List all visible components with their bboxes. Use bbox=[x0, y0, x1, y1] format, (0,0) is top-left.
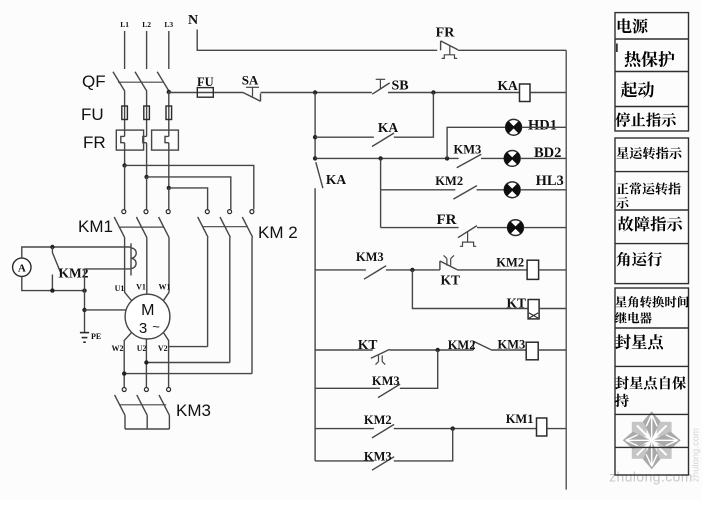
svg-text:U2: U2 bbox=[137, 344, 147, 353]
node ammeter top junction bbox=[50, 245, 54, 249]
fuse FU pole2 bbox=[144, 106, 150, 120]
wire FR out3 bbox=[168, 143, 170, 188]
contactor KM1 pole3 bbox=[159, 210, 171, 238]
KM3 linkage bar bbox=[119, 404, 166, 406]
wire BD2 to rail bbox=[520, 157, 566, 159]
wire HL3 to rail bbox=[520, 189, 566, 191]
node KT branch bbox=[410, 268, 414, 272]
node rung3 tap bbox=[313, 156, 317, 160]
wire KM1 rung left bbox=[315, 428, 374, 430]
wire PE to motor frame bbox=[85, 309, 127, 311]
contactor KM1 pole1 bbox=[114, 210, 126, 238]
wire W2 to KM2 pole3 bbox=[124, 373, 252, 375]
svg-text:L2: L2 bbox=[142, 20, 151, 29]
wire CT bottom return bbox=[85, 268, 132, 270]
wire rung2 left bbox=[315, 136, 374, 138]
contact KT delayed NO bbox=[371, 349, 390, 364]
wire U2 to KM2 pole2 bbox=[146, 362, 229, 364]
svg-text:V1: V1 bbox=[136, 283, 146, 292]
contact KM3 aux (BD2) bbox=[457, 154, 482, 168]
contact KA self-hold bbox=[372, 133, 394, 147]
ammeter A bbox=[13, 258, 31, 276]
svg-text:M: M bbox=[141, 302, 154, 319]
wire bottom rung to node bbox=[394, 429, 453, 461]
svg-text:KM3: KM3 bbox=[454, 142, 482, 156]
wire phase1 to KM2 pole3 bbox=[125, 165, 254, 209]
wire rung1 right bbox=[388, 92, 520, 94]
svg-text:KM3: KM3 bbox=[356, 250, 384, 264]
svg-text:U1: U1 bbox=[115, 284, 125, 293]
fuse FU pole3 bbox=[166, 106, 172, 120]
wire L3 feed bbox=[168, 31, 170, 69]
wire phase2 to KM2 pole2 bbox=[147, 177, 231, 210]
contact KM2 interlock NC bbox=[473, 341, 490, 350]
node rung3 branchA bbox=[378, 156, 382, 160]
wire KM3 out1 bbox=[124, 415, 126, 429]
wire rung3 left bbox=[315, 157, 459, 159]
wire to KM2 coil bbox=[457, 269, 527, 271]
svg-text:KM2: KM2 bbox=[448, 338, 476, 352]
svg-text:HL3: HL3 bbox=[536, 173, 564, 189]
svg-text:KM3: KM3 bbox=[372, 374, 400, 388]
node phase2 split bbox=[144, 175, 148, 179]
svg-text:SB: SB bbox=[392, 79, 409, 94]
lamp BD2 star-run bbox=[504, 151, 520, 167]
wire rung2 to SB node bbox=[394, 93, 434, 138]
wire N rail right bbox=[458, 49, 566, 51]
wire phase2 to KM1 pole2 bbox=[146, 177, 148, 210]
wire KT coil rung bbox=[412, 270, 528, 309]
wire star point bar bbox=[125, 428, 169, 430]
svg-text:FR: FR bbox=[436, 26, 456, 41]
wire KM1 out1 to motor U1 bbox=[125, 237, 132, 300]
wire U2 down to KM3 pole2 bbox=[145, 339, 147, 388]
svg-text:KT: KT bbox=[358, 337, 378, 352]
svg-text:KM1: KM1 bbox=[506, 412, 534, 426]
svg-text:KM2: KM2 bbox=[435, 174, 463, 188]
wire L1 feed bbox=[124, 31, 126, 69]
wire phase1 to KM1 pole1 bbox=[124, 165, 126, 209]
wire KM3 out3 bbox=[168, 415, 170, 429]
svg-text:N: N bbox=[188, 13, 198, 28]
svg-text:KM2: KM2 bbox=[364, 413, 392, 427]
wire FR rung left bbox=[381, 227, 459, 229]
wire phase3 to KM2 pole1 bbox=[169, 188, 208, 210]
contact KM3 interlock bbox=[364, 266, 386, 280]
FR contact top (NC in N rail) bbox=[441, 41, 458, 59]
wire KM3-hold rung left bbox=[315, 387, 380, 389]
wire KM1 out3 to motor W1 bbox=[163, 237, 169, 300]
node phase1 split bbox=[122, 163, 126, 167]
node KM1 hold tap bbox=[451, 426, 455, 430]
node SB out bbox=[431, 90, 435, 94]
contact KM2 aux (HL3) bbox=[453, 186, 477, 200]
svg-text:FU: FU bbox=[81, 105, 104, 124]
relay coil KA bbox=[520, 84, 531, 102]
svg-text:L1: L1 bbox=[120, 20, 129, 29]
wire KM1 out2 to motor V1 bbox=[146, 237, 148, 294]
wire W2 down to KM3 pole1 bbox=[124, 333, 131, 388]
motor M1 3-phase bbox=[125, 294, 170, 339]
svg-text:QF: QF bbox=[82, 72, 106, 91]
switch SA bbox=[243, 87, 261, 101]
svg-text:zhulong.com: zhulong.com bbox=[691, 428, 702, 482]
node U2 junction bbox=[144, 360, 148, 364]
contactor KM1 pole2 bbox=[136, 210, 148, 238]
wire KM1 coil to rail bbox=[547, 428, 566, 430]
contactor KM2 pole3 bbox=[242, 210, 254, 238]
wire KA coil to rail bbox=[530, 92, 566, 94]
svg-text:V2: V2 bbox=[158, 344, 168, 353]
wire bottom rung left bbox=[315, 460, 374, 462]
svg-text:zhulong.com: zhulong.com bbox=[609, 470, 693, 485]
svg-text:~: ~ bbox=[152, 319, 160, 334]
wire fault lamp to rail bbox=[523, 227, 566, 229]
wire rung1 mid bbox=[261, 92, 372, 94]
wire to HL3 lamp bbox=[477, 189, 505, 191]
current transformer coil bbox=[131, 243, 136, 275]
contactor KM3 pole1 bbox=[115, 388, 127, 416]
contact KM2 aux (KM1) bbox=[372, 424, 394, 438]
svg-text:KM 2: KM 2 bbox=[258, 223, 298, 242]
svg-text:W1: W1 bbox=[159, 283, 171, 292]
contactor coil KM3 bbox=[526, 342, 538, 360]
svg-text:PE: PE bbox=[91, 332, 101, 341]
wire L2 feed bbox=[146, 31, 148, 69]
wire to fault lamp bbox=[477, 227, 508, 229]
svg-text:KM3: KM3 bbox=[498, 338, 526, 352]
breaker QF bbox=[113, 72, 169, 92]
node PE branch top bbox=[82, 288, 86, 292]
legend table bbox=[615, 13, 689, 475]
watermark logo bbox=[623, 411, 681, 469]
contactor KM2 pole2 bbox=[220, 210, 232, 238]
wire HD1 branch bbox=[447, 127, 506, 158]
svg-text:3: 3 bbox=[139, 320, 147, 337]
wire KM2 out1 down bbox=[207, 237, 209, 346]
svg-text:KA: KA bbox=[326, 172, 347, 187]
node bypass bottom bbox=[50, 288, 54, 292]
wire KM3-coil rung mid bbox=[390, 349, 474, 351]
svg-text:KA: KA bbox=[498, 78, 519, 93]
wire V2 down to KM3 pole3 bbox=[163, 333, 168, 388]
node W2 junction bbox=[122, 371, 126, 375]
svg-text:KT: KT bbox=[507, 296, 527, 311]
svg-text:KM1: KM1 bbox=[78, 217, 113, 236]
node PE-motor tap bbox=[82, 308, 86, 312]
wire QF-FR pole1 bbox=[124, 91, 126, 136]
node rung2 tap bbox=[313, 135, 317, 139]
thermal relay FR bbox=[116, 130, 178, 150]
wire rung1 left bbox=[169, 92, 243, 94]
svg-text:HD1: HD1 bbox=[528, 118, 557, 134]
wire HL3 rung left bbox=[381, 189, 456, 191]
rail left upper bbox=[314, 93, 316, 159]
KT coil delay mark bbox=[529, 313, 538, 318]
contact KA rail (NO) bbox=[316, 162, 323, 188]
pushbutton SB bbox=[372, 79, 390, 94]
wire PE drop bbox=[84, 269, 86, 333]
svg-text:KT: KT bbox=[441, 273, 461, 288]
FR contact fault rung (NC) bbox=[458, 226, 477, 247]
svg-text:L3: L3 bbox=[164, 20, 173, 29]
svg-text:FR: FR bbox=[83, 133, 106, 152]
wire KM2 out2 down bbox=[229, 237, 231, 362]
lamp fault-indicator bbox=[508, 220, 524, 236]
KM2 linkage bar bbox=[203, 226, 248, 228]
svg-text:KA: KA bbox=[378, 120, 399, 135]
contact KT delayed NC bbox=[440, 255, 457, 270]
contactor coil KM2 bbox=[527, 260, 539, 279]
svg-text:SA: SA bbox=[242, 73, 259, 88]
wire KM2-coil rung mid bbox=[386, 269, 440, 271]
svg-text:FU: FU bbox=[197, 75, 214, 89]
svg-text:W2: W2 bbox=[112, 344, 124, 353]
wire KM1 rung mid bbox=[394, 428, 537, 430]
node rail-left top bbox=[313, 90, 317, 94]
wire phase3 to KM1 pole3 bbox=[168, 188, 170, 210]
contact KM2 ammeter bypass bbox=[52, 247, 60, 291]
lamp HD1 stop-indicator bbox=[506, 119, 522, 135]
wire V2 to KM2 pole1 bbox=[169, 346, 208, 348]
tick row2 bbox=[616, 44, 618, 53]
ground PE bbox=[80, 333, 89, 343]
legend text rows bbox=[618, 18, 632, 33]
wire KM3 out2 bbox=[146, 415, 148, 429]
wire KM2-coil rung left bbox=[315, 269, 366, 271]
node rung3 branchB bbox=[445, 156, 449, 160]
wire FR out2 bbox=[146, 143, 148, 177]
wire KM2 out3 down bbox=[251, 237, 253, 373]
lamp HL3 run-indicator bbox=[504, 182, 520, 198]
contactor KM2 pole1 bbox=[198, 210, 210, 238]
rail left lower bbox=[314, 188, 316, 461]
contact KM3 aux (KM1 hold) bbox=[372, 457, 394, 471]
node phase3 split bbox=[167, 186, 171, 190]
wire KM3-hold to node bbox=[400, 350, 438, 388]
wire QF-FR pole3 bbox=[168, 91, 170, 136]
contactor KM3 pole3 bbox=[159, 388, 171, 416]
wire to BD2 lamp bbox=[481, 157, 504, 159]
node KM3 hold tap bbox=[436, 348, 440, 352]
svg-text:KM2: KM2 bbox=[496, 256, 524, 270]
wire ammeter top to CT bbox=[22, 247, 131, 258]
KM1 linkage bar bbox=[119, 226, 164, 228]
contactor KM3 pole2 bbox=[137, 388, 149, 416]
wire to KM3 coil bbox=[491, 349, 526, 351]
node L3 control tap bbox=[167, 90, 171, 94]
wire HD1 to rail bbox=[522, 126, 567, 128]
rail right vertical bbox=[565, 50, 567, 489]
wire KM2 coil to rail bbox=[539, 269, 567, 271]
wire branchA down bbox=[380, 158, 382, 227]
wire QF-FR pole2 bbox=[146, 91, 148, 136]
fuse FU pole1 bbox=[122, 106, 128, 120]
svg-text:A: A bbox=[18, 263, 26, 275]
wire FR out1 bbox=[124, 143, 126, 166]
wire KT coil to rail bbox=[539, 308, 566, 310]
wire N rail left bbox=[197, 30, 437, 51]
contact KM3 self-hold bbox=[378, 384, 400, 398]
timer coil KT bbox=[528, 300, 539, 319]
svg-text:KM3: KM3 bbox=[364, 450, 392, 464]
wire ammeter bottom bbox=[22, 277, 85, 291]
wire KM3-coil rung left bbox=[315, 349, 373, 351]
contactor coil KM1 bbox=[537, 418, 547, 436]
fuse FU control bbox=[197, 88, 213, 98]
svg-text:FR: FR bbox=[437, 212, 457, 228]
svg-text:KM3: KM3 bbox=[176, 401, 211, 420]
wire KM3 coil to rail bbox=[538, 349, 566, 351]
